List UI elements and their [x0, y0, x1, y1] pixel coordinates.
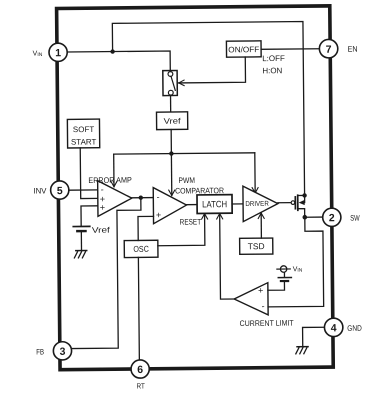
svg-text:SOFT: SOFT	[73, 125, 95, 134]
svg-text:LATCH: LATCH	[202, 199, 227, 209]
wire: latch to driver	[232, 203, 243, 205]
pin 2	[323, 208, 341, 226]
svg-text:RESET: RESET	[180, 217, 202, 226]
terminal VIN (circle)	[280, 266, 286, 272]
ON/OFF box	[226, 41, 261, 57]
wire: error amp lower + input to Vref battery	[81, 206, 98, 226]
wire: VIN rail riser to top bus and down to FET drain	[112, 22, 304, 198]
svg-text:DRIVER: DRIVER	[245, 201, 268, 208]
svg-text:+: +	[156, 210, 161, 220]
svg-text:7: 7	[326, 44, 332, 56]
wire: bus drop to PWM comparator (arrow)	[170, 154, 172, 196]
battery Vref	[73, 225, 89, 227]
node: source SW junction	[302, 215, 307, 220]
pin 6	[131, 360, 149, 378]
svg-text:6: 6	[137, 364, 143, 376]
wire: ON/OFF to switch (arrow)	[178, 57, 245, 83]
svg-text:GND: GND	[347, 324, 362, 333]
wire: pin4 to ground	[303, 327, 325, 346]
wire: current limit - input to SW node	[267, 219, 323, 307]
pin 3	[53, 342, 71, 360]
svg-text:Vref: Vref	[92, 226, 111, 235]
wire: bus drop to driver (arrow)	[254, 153, 256, 193]
wire: soft start to error amp + input	[80, 148, 98, 199]
svg-text:TSD: TSD	[248, 241, 265, 251]
node: VIN junction	[110, 49, 114, 53]
wire: SW node to pin2	[305, 216, 323, 218]
wire: pin5 INV to error amp - input	[69, 189, 98, 191]
ground	[297, 346, 308, 348]
svg-text:RT: RT	[137, 381, 146, 390]
transistor Q1 PMOS switch	[278, 202, 291, 204]
TSD box	[240, 238, 273, 254]
svg-text:5: 5	[57, 185, 63, 197]
op-amp error amp	[98, 180, 132, 216]
svg-text:CURRENT LIMIT: CURRENT LIMIT	[240, 319, 294, 329]
pin 7	[319, 39, 338, 58]
wire: current limit + input to threshold source	[268, 282, 285, 291]
svg-text:+: +	[258, 285, 263, 295]
svg-text:2: 2	[329, 212, 335, 224]
SOFT START box	[67, 119, 99, 148]
svg-text:L:OFF: L:OFF	[262, 54, 285, 63]
node: drain junction	[302, 193, 306, 197]
svg-text:H:ON: H:ON	[262, 66, 282, 75]
svg-text:PWM: PWM	[178, 176, 195, 185]
battery: current limit threshold	[281, 280, 288, 282]
svg-text:Vref: Vref	[164, 117, 182, 126]
node: error amp output junction	[139, 195, 143, 199]
svg-text:VIN: VIN	[293, 266, 303, 274]
svg-text:ON/OFF: ON/OFF	[228, 45, 259, 54]
svg-text:3: 3	[60, 346, 66, 358]
wire: OSC to pin6 RT	[137, 257, 140, 359]
pin 5	[51, 181, 69, 199]
svg-text:VIN: VIN	[33, 50, 43, 58]
wire: Vref box to internal supply bus	[170, 130, 172, 154]
svg-text:+: +	[100, 202, 105, 212]
svg-text:OSC: OSC	[133, 244, 149, 254]
op-amp current limit comparator	[234, 283, 268, 316]
regulator Vref box	[156, 112, 187, 130]
svg-text:START: START	[71, 137, 97, 146]
svg-text:EN: EN	[348, 45, 358, 54]
svg-text:SW: SW	[350, 214, 360, 223]
wire: TSD to driver (arrow)	[260, 213, 262, 238]
op-amp PWM comparator	[153, 187, 186, 223]
wire: current limit output to latch (arrow)	[220, 213, 235, 299]
amplifier driver	[243, 186, 278, 222]
wire: OSC reset to latch (arrow)	[158, 214, 205, 246]
svg-text:INV: INV	[33, 186, 47, 195]
wire: ON/OFF to pin 7	[261, 48, 319, 51]
LATCH box	[197, 195, 232, 214]
switch SW1 (enable switch)	[163, 71, 178, 96]
svg-text:-: -	[101, 184, 104, 194]
IC outline border	[57, 6, 334, 370]
wire: switch to Vref box	[170, 96, 172, 112]
ground	[76, 250, 87, 252]
svg-text:-: -	[262, 301, 265, 311]
OSC box	[124, 240, 158, 257]
wire: bus drop to error amp (arrow)	[113, 154, 115, 187]
pin 4	[324, 318, 343, 337]
pin 1	[49, 43, 67, 61]
svg-text:-: -	[157, 192, 160, 202]
wire: OSC to PWM comparator + input	[138, 216, 154, 240]
wire: error amp output to pin3 FB	[71, 198, 143, 349]
wire: pin1 to switch top	[67, 51, 170, 72]
svg-text:ERROR AMP: ERROR AMP	[88, 176, 132, 185]
wire: error amp output	[132, 197, 153, 199]
wire: internal supply bus	[114, 153, 255, 154]
svg-text:1: 1	[55, 47, 61, 59]
svg-text:4: 4	[331, 322, 337, 334]
node: bus junction	[169, 151, 173, 155]
svg-text:FB: FB	[36, 347, 44, 356]
svg-text:COMPARATOR: COMPARATOR	[175, 186, 224, 195]
wire: PWM comparator output to latch	[186, 204, 197, 206]
